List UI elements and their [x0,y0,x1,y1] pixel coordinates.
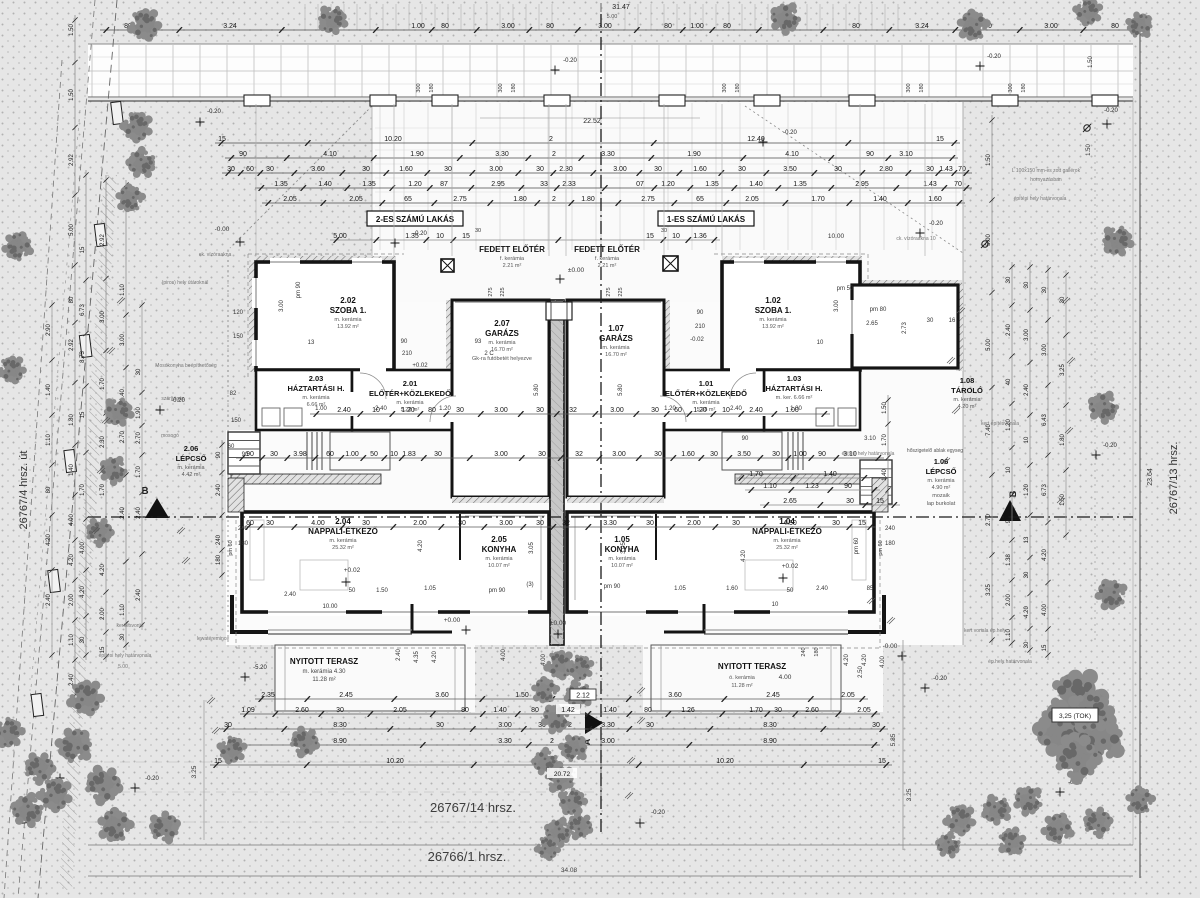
svg-text:3.05: 3.05 [529,542,535,554]
living 2.04 + kitchen 2.05 walls [242,512,549,612]
dim row y187 [255,187,972,189]
entry wall hatch right [735,474,885,484]
svg-text:180: 180 [511,83,517,92]
stairs bay 2.06 [228,432,260,474]
svg-text:23.64: 23.64 [1147,468,1154,486]
taroló hatch [852,280,962,286]
svg-text:ek. vízóraakna: ek. vízóraakna [199,252,232,258]
svg-text:60: 60 [674,407,682,414]
svg-text:3.00: 3.00 [598,23,612,30]
svg-text:60: 60 [246,166,254,173]
svg-text:pm 80: pm 80 [870,307,887,313]
svg-text:4.10: 4.10 [323,151,337,158]
svg-text:GARÁZS: GARÁZS [599,334,633,343]
svg-text:10.07 m²: 10.07 m² [611,563,633,569]
svg-text:30: 30 [266,520,274,527]
stair-side hatched wall left [228,478,244,512]
svg-text:70: 70 [958,166,966,173]
svg-text:150: 150 [233,334,244,340]
svg-text:4.20: 4.20 [100,564,106,576]
svg-text:30: 30 [651,407,659,414]
svg-text:13: 13 [1024,536,1030,543]
left garden dim col 3 [125,180,127,650]
svg-text:m. kerámia: m. kerámia [329,538,357,544]
svg-text:3.24: 3.24 [223,23,237,30]
window gaps 2.02 top [270,258,300,266]
trees top row [125,5,165,44]
boundary hatch strip [59,175,117,890]
svg-text:2: 2 [549,136,553,143]
dim row y522 (below section line) [242,526,876,528]
svg-text:2.01: 2.01 [403,379,418,388]
svg-text:4.42 m²: 4.42 m² [182,472,201,478]
svg-text:3.30: 3.30 [498,738,512,745]
svg-text:3.50: 3.50 [737,451,751,458]
svg-text:8.30: 8.30 [763,722,777,729]
terrace right outline [651,645,841,711]
svg-text:8.90: 8.90 [333,738,347,745]
svg-text:2.33: 2.33 [562,181,576,188]
bottom boundary lines [88,844,1133,846]
svg-text:1.23: 1.23 [805,483,819,490]
svg-text:1.35: 1.35 [705,181,719,188]
2.04 step walls to terrace [232,595,268,632]
svg-text:30: 30 [1042,286,1048,293]
svg-text:2.30: 2.30 [100,436,106,448]
room 1.02 SZOBA walls [722,262,860,370]
svg-text:f. kerámia: f. kerámia [595,256,620,262]
svg-text:pm 90: pm 90 [296,281,302,298]
svg-text:±0.00: ±0.00 [568,267,585,274]
washer rects 1.03 [816,408,834,426]
svg-text:10: 10 [722,407,730,414]
svg-text:1-ES SZÁMÚ LAKÁS: 1-ES SZÁMÚ LAKÁS [667,215,746,224]
svg-text:30: 30 [738,166,746,173]
svg-text:180: 180 [735,83,741,92]
svg-text:TÁROLÓ: TÁROLÓ [951,386,983,395]
svg-text:30: 30 [1024,641,1030,648]
svg-text:300: 300 [906,83,912,92]
svg-text:4.00: 4.00 [779,674,792,681]
svg-text:GARÁZS: GARÁZS [485,329,519,338]
svg-text:300: 300 [722,83,728,92]
svg-text:26767/13 hrsz.: 26767/13 hrsz. [1168,442,1180,515]
svg-text:2.40: 2.40 [136,507,142,519]
svg-text:34.08: 34.08 [561,867,578,874]
left garden dim col 4 [141,300,143,630]
dim row y694 [255,698,868,700]
porch column right [663,256,678,271]
svg-text:180: 180 [216,554,222,565]
svg-text:1.40: 1.40 [873,196,887,203]
svg-text:2.60: 2.60 [805,707,819,714]
svg-text:1.70: 1.70 [100,378,106,390]
svg-text:1.10: 1.10 [69,634,75,646]
svg-text:30: 30 [654,451,662,458]
svg-text:építési hely határvonala: építési hely határvonala [842,451,895,457]
svg-text:25.32 m²: 25.32 m² [332,545,354,551]
svg-text:-0.20: -0.20 [207,109,221,115]
svg-text:32: 32 [575,451,583,458]
svg-text:5.00: 5.00 [118,664,128,670]
svg-text:1.35: 1.35 [793,181,807,188]
hatch below garage walls [452,497,549,503]
svg-text:60: 60 [228,444,235,450]
svg-text:6.73: 6.73 [80,304,86,316]
room 2.02 SZOBA walls [256,262,394,370]
svg-text:80: 80 [664,23,672,30]
svg-text:1.10: 1.10 [120,284,126,296]
svg-text:275: 275 [488,287,494,296]
svg-text:3.25: 3.25 [191,765,198,778]
svg-text:1.00: 1.00 [793,451,807,458]
svg-text:225: 225 [500,287,506,296]
svg-text:1.42: 1.42 [561,707,575,714]
svg-text:30: 30 [336,707,344,714]
svg-text:2.50: 2.50 [858,666,864,678]
svg-text:3.60: 3.60 [311,166,325,173]
room 1.03 walls [764,370,860,430]
svg-text:4.00: 4.00 [501,649,507,661]
svg-text:2.05: 2.05 [491,535,507,544]
svg-text:építési hely határvonala: építési hely határvonala [99,653,152,659]
parking stall ticks top [305,4,898,30]
svg-text:30: 30 [1024,571,1030,578]
svg-text:65: 65 [696,196,704,203]
svg-text:1.50: 1.50 [69,89,75,101]
svg-text:2.70: 2.70 [136,432,142,444]
svg-text:1.36: 1.36 [693,233,707,240]
party wall (hatched) [550,300,564,645]
svg-text:építési hely határvonala: építési hely határvonala [1014,196,1067,202]
svg-text:2: 2 [552,151,556,158]
svg-text:1.40: 1.40 [69,464,75,476]
garage 1.07 walls [567,300,664,497]
svg-text:-5.20: -5.20 [253,665,267,671]
svg-text:20.72: 20.72 [554,771,571,778]
svg-text:kert építésvonala: kert építésvonala [981,421,1019,427]
svg-text:1.50: 1.50 [986,154,992,166]
svg-text:2.07: 2.07 [494,319,510,328]
svg-text:30: 30 [362,166,370,173]
svg-text:1.60: 1.60 [928,196,942,203]
svg-text:3.00: 3.00 [120,334,126,346]
svg-text:30: 30 [834,166,842,173]
svg-text:2.00: 2.00 [69,594,75,606]
svg-text:80: 80 [69,296,75,303]
svg-text:15: 15 [646,233,654,240]
svg-text:240: 240 [216,534,222,545]
svg-text:275: 275 [606,287,612,296]
svg-text:2: 2 [552,196,556,203]
top dimension row [100,29,1140,31]
svg-text:HÁZTARTÁSI H.: HÁZTARTÁSI H. [766,384,823,393]
svg-text:2.00: 2.00 [413,520,427,527]
svg-text:180: 180 [885,541,896,547]
svg-text:15: 15 [878,758,886,765]
entry court steps right [787,432,789,470]
svg-text:1.20: 1.20 [401,407,415,414]
roof overhang dashed outlines [248,253,404,255]
svg-text:3.00: 3.00 [494,407,508,414]
svg-text:ép.hely határvonala: ép.hely határvonala [988,659,1032,665]
svg-text:210: 210 [695,324,706,330]
svg-text:26767/14 hrsz.: 26767/14 hrsz. [430,800,516,815]
svg-text:32: 32 [562,520,570,527]
svg-text:90: 90 [697,310,704,316]
dim row y157 [225,157,958,159]
svg-text:kert vonala ép.hely: kert vonala ép.hely [964,628,1006,634]
svg-text:3.30: 3.30 [601,151,615,158]
svg-text:07: 07 [636,181,644,188]
svg-text:3.10: 3.10 [864,436,876,442]
svg-text:30: 30 [444,166,452,173]
section marker A bottom [585,712,603,734]
svg-text:-0.20: -0.20 [783,130,797,136]
svg-text:2.00: 2.00 [687,520,701,527]
svg-text:90: 90 [1006,516,1012,523]
svg-text:1.60: 1.60 [399,166,413,173]
svg-text:1.90: 1.90 [136,407,142,419]
svg-text:1.70: 1.70 [811,196,825,203]
svg-text:2.00: 2.00 [1006,594,1012,606]
svg-text:10: 10 [672,233,680,240]
svg-text:4.00: 4.00 [1042,604,1048,616]
svg-text:80: 80 [46,486,52,493]
medium tree right [1095,579,1128,611]
svg-text:1.40: 1.40 [603,707,617,714]
svg-text:10.20: 10.20 [384,136,402,143]
left road dim col [74,15,76,700]
right unit szoba hatch top [722,256,862,263]
svg-text:15: 15 [936,136,944,143]
svg-text:2.65: 2.65 [866,321,878,327]
svg-text:30: 30 [872,722,880,729]
svg-text:1.70: 1.70 [136,466,142,478]
svg-text:1.20: 1.20 [1024,484,1030,496]
svg-text:f. kerámia: f. kerámia [500,256,525,262]
svg-text:pm 60: pm 60 [878,540,884,555]
svg-text:1.05: 1.05 [424,586,436,592]
svg-text:KONYHA: KONYHA [482,545,517,554]
svg-text:30: 30 [1006,276,1012,283]
svg-text:2.05: 2.05 [349,196,363,203]
svg-text:m. kerámia: m. kerámia [759,317,787,323]
svg-text:4.20 m²: 4.20 m² [958,404,977,410]
svg-text:4.00: 4.00 [311,520,325,527]
grid extension lines in driveway [256,104,963,256]
svg-text:4.20: 4.20 [1024,606,1030,618]
svg-text:3.00: 3.00 [498,722,512,729]
driveway joint lines [375,103,960,250]
svg-text:2.03: 2.03 [309,374,324,383]
svg-text:30: 30 [266,166,274,173]
svg-text:2.60: 2.60 [295,707,309,714]
svg-text:4.50: 4.50 [783,520,797,527]
svg-text:m. kerámia: m. kerámia [927,478,955,484]
svg-text:NAPPALI-ÉTKEZŐ: NAPPALI-ÉTKEZŐ [308,527,378,536]
svg-text:1.03: 1.03 [787,374,802,383]
svg-text:90: 90 [866,151,874,158]
driveway / courtyard white zone [372,102,963,302]
svg-text:4.20: 4.20 [432,651,438,663]
svg-text:2.45: 2.45 [339,692,353,699]
left garden dim col 1 [85,170,87,660]
dwelling no.1 label box [658,211,754,226]
svg-text:180: 180 [919,83,925,92]
svg-text:1.90: 1.90 [687,151,701,158]
svg-text:1.50: 1.50 [515,692,529,699]
svg-text:1.26: 1.26 [681,707,695,714]
svg-text:10.00: 10.00 [828,233,845,240]
svg-text:16.70 m²: 16.70 m² [605,352,627,358]
svg-text:3.25: 3.25 [906,788,913,801]
svg-text:1.80: 1.80 [581,196,595,203]
svg-text:2.40: 2.40 [1006,324,1012,336]
terrace white left [275,645,475,712]
living interior faint lines [300,560,348,590]
svg-text:10: 10 [390,451,398,458]
svg-text:26767/4 hrsz. út: 26767/4 hrsz. út [18,451,30,530]
trees centre-bottom column [541,646,579,683]
survey markers [111,101,124,124]
svg-text:50: 50 [349,588,356,594]
svg-text:3.30: 3.30 [495,151,509,158]
svg-text:30: 30 [227,166,235,173]
svg-text:1.50: 1.50 [1086,144,1092,156]
svg-text:3.05: 3.05 [621,542,627,554]
svg-text:2.04: 2.04 [335,517,351,526]
terrace white right [643,645,883,712]
svg-text:1.00: 1.00 [345,451,359,458]
svg-text:15: 15 [80,411,86,418]
svg-text:2.21 m²: 2.21 m² [503,263,522,269]
svg-text:3.00: 3.00 [100,311,106,323]
svg-text:m. kerámia: m. kerámia [773,538,801,544]
svg-text:180: 180 [814,647,820,656]
svg-text:4.20: 4.20 [862,654,868,666]
svg-text:-0.00: -0.00 [215,226,230,233]
svg-text:25.32 m²: 25.32 m² [776,545,798,551]
svg-text:3.50: 3.50 [783,166,797,173]
terrace left outline [275,645,465,711]
svg-text:13.92 m²: 13.92 m² [337,324,359,330]
kitchen divider 1.05 [655,514,657,560]
svg-text:2.80: 2.80 [879,166,893,173]
svg-text:1.10: 1.10 [46,434,52,446]
svg-text:30: 30 [646,520,654,527]
svg-text:2.73: 2.73 [902,322,908,334]
utility symbol [1083,124,1091,132]
svg-text:SZOBA 1.: SZOBA 1. [330,306,367,315]
svg-text:2.40: 2.40 [136,589,142,601]
svg-text:-0.20: -0.20 [929,221,943,227]
svg-text:3.10: 3.10 [899,151,913,158]
svg-text:-0.20: -0.20 [987,54,1001,60]
svg-text:1.02: 1.02 [765,296,781,305]
svg-text:1.60: 1.60 [681,451,695,458]
svg-text:15: 15 [80,246,86,253]
svg-text:180: 180 [429,83,435,92]
svg-text:ELŐTÉR+KÖZLEKEDŐ: ELŐTÉR+KÖZLEKEDŐ [665,389,747,398]
svg-text:300: 300 [1008,83,1014,92]
svg-text:80: 80 [644,707,652,714]
svg-text:-0.20: -0.20 [413,231,427,237]
trees right bottom cluster [939,799,981,840]
svg-text:3.00: 3.00 [501,23,515,30]
building envelope dotted [227,250,229,645]
svg-text:hőszigetelő ablak egyseg: hőszigetelő ablak egyseg [907,448,963,454]
svg-text:3.00: 3.00 [1024,329,1030,341]
svg-text:90: 90 [246,451,254,458]
svg-text:4.20: 4.20 [1042,549,1048,561]
1.04 step walls to terrace [848,595,884,632]
svg-text:m. kerámia: m. kerámia [334,317,362,323]
svg-text:30: 30 [926,166,934,173]
svg-text:13: 13 [308,340,315,346]
svg-text:-0.20: -0.20 [563,58,577,64]
svg-text:LÉPCSŐ: LÉPCSŐ [176,454,207,463]
svg-text:150: 150 [231,418,242,424]
svg-text:3.00: 3.00 [279,300,285,312]
svg-text:lap burkolat: lap burkolat [927,501,956,507]
svg-text:225: 225 [618,287,624,296]
benchmark stars [196,118,205,127]
kitchen divider 2.05 [459,514,461,560]
svg-text:30: 30 [120,633,126,640]
svg-text:26766/1 hrsz.: 26766/1 hrsz. [428,849,507,864]
svg-text:FEDETT ELŐTÉR: FEDETT ELŐTÉR [574,245,640,254]
svg-text:32: 32 [569,407,577,414]
svg-text:3.60: 3.60 [435,692,449,699]
svg-text:65: 65 [404,196,412,203]
right plot boundary [1139,32,1141,878]
svg-text:2.05: 2.05 [841,692,855,699]
svg-text:13.92 m²: 13.92 m² [762,324,784,330]
svg-text:4.00: 4.00 [69,514,75,526]
svg-text:240: 240 [801,647,807,656]
svg-text:2.40: 2.40 [69,674,75,686]
svg-text:1.00: 1.00 [690,23,704,30]
svg-text:210: 210 [402,351,413,357]
svg-text:16: 16 [949,318,956,324]
svg-text:80: 80 [852,23,860,30]
svg-text:2.40: 2.40 [730,406,742,412]
svg-text:-0.20: -0.20 [145,776,159,782]
row y237 small [330,239,720,241]
svg-text:1.90: 1.90 [410,151,424,158]
svg-text:3.00: 3.00 [494,451,508,458]
svg-text:(3): (3) [526,582,533,588]
porch column left [441,259,454,272]
garage flank hatches [446,300,452,430]
svg-text:4.00: 4.00 [880,656,886,668]
svg-text:2.40: 2.40 [1024,384,1030,396]
svg-text:m. kerámia: m. kerámia [177,465,205,471]
svg-text:2.92: 2.92 [69,154,75,166]
svg-text:4.20: 4.20 [741,550,747,562]
svg-text:80: 80 [531,707,539,714]
svg-text:30: 30 [270,451,278,458]
svg-text:+0.02: +0.02 [344,567,361,574]
svg-text:1.80: 1.80 [1060,434,1066,446]
svg-text:2.02: 2.02 [340,296,356,305]
svg-text:180: 180 [238,541,249,547]
svg-text:2.40: 2.40 [816,586,828,592]
svg-text:90: 90 [742,436,749,442]
boxed dim labels over trees [570,689,596,700]
trees left column [115,105,159,149]
